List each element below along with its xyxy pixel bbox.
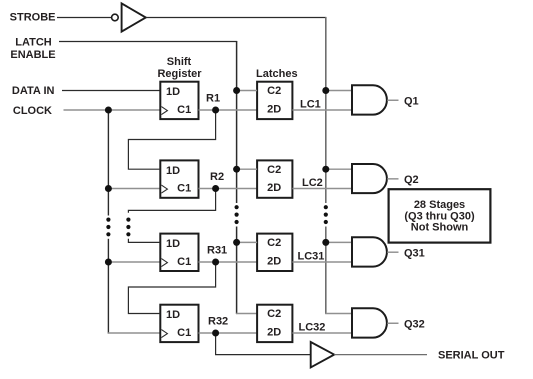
and-gate G3 (352, 237, 387, 266)
svg-text:Not Shown: Not Shown (411, 222, 469, 234)
junction strobe row 1 (322, 87, 329, 94)
wire latch-enable stub to C2 L3 (237, 241, 258, 243)
wire LC32 latch output to gate (292, 332, 352, 334)
svg-text:(Q3 thru Q30): (Q3 thru Q30) (404, 210, 475, 222)
wire strobe stub to gate G3 (326, 241, 352, 243)
svg-text:LC31: LC31 (298, 250, 325, 262)
svg-text:C2: C2 (267, 85, 281, 97)
latch L3 box (257, 234, 292, 271)
svg-text:C2: C2 (267, 237, 281, 249)
clock wedge FF4 (161, 330, 167, 338)
svg-text:1D: 1D (166, 238, 180, 250)
buffer U2 serial out (311, 342, 335, 367)
svg-text:2D: 2D (267, 326, 281, 338)
svg-text:LC1: LC1 (300, 98, 321, 110)
svg-text:C1: C1 (177, 104, 191, 116)
ellipsis strobe bus (324, 205, 328, 209)
wire CLOCK input (64, 109, 161, 111)
wire latch-enable stub to C2 L1 (237, 90, 258, 92)
ellipsis latch-enable bus (235, 205, 239, 209)
svg-text:STROBE: STROBE (10, 11, 56, 23)
svg-text:LATCH: LATCH (15, 37, 52, 49)
ellipsis clock bus (106, 218, 110, 222)
svg-text:C1: C1 (177, 327, 191, 339)
svg-text:SERIAL OUT: SERIAL OUT (438, 350, 505, 362)
wire strobe vertical bus lower segment (325, 227, 327, 315)
wire STROBE input (57, 17, 111, 19)
shift register flip-flop FF2 box (160, 160, 198, 197)
shift register flip-flop FF3 box (160, 234, 198, 271)
wire serial path R31 to FF32 1D (128, 262, 215, 314)
wire clock vertical upper segment (107, 110, 109, 216)
junction strobe row 2 (322, 166, 329, 173)
svg-text:R32: R32 (208, 315, 228, 327)
wire gate G4 output (387, 322, 398, 324)
junction latch-enable row 2 (233, 166, 240, 173)
svg-text:1D: 1D (166, 309, 180, 321)
clock wedge FF3 (161, 259, 167, 267)
wire latch-enable stub to C2 L2 (237, 168, 258, 170)
svg-text:1D: 1D (166, 165, 180, 177)
wire serial path R2 down (128, 189, 215, 213)
svg-text:DATA IN: DATA IN (12, 85, 55, 97)
wire strobe stub to gate G2 (326, 168, 352, 170)
wire gate G3 output (387, 251, 398, 253)
and-gate G4 (352, 308, 387, 337)
svg-text:LC32: LC32 (299, 321, 326, 333)
wire clock stub to C1 row31 (108, 261, 160, 263)
junction clock row2 (105, 185, 112, 192)
note box 28 stages (389, 189, 491, 242)
svg-text:Q2: Q2 (404, 174, 419, 186)
shift register flip-flop FF4 box (160, 305, 198, 342)
svg-text:28 Stages: 28 Stages (414, 199, 465, 211)
svg-text:2D: 2D (267, 255, 281, 267)
svg-text:R2: R2 (210, 171, 224, 183)
wire LC2 latch output to gate (292, 188, 352, 190)
wire LATCH ENABLE input (59, 41, 237, 43)
svg-text:C2: C2 (267, 308, 281, 320)
wire R32 shift output to latch 2D (199, 332, 258, 334)
wire gate G1 output (387, 99, 398, 101)
wire serial out from R32 (216, 333, 311, 355)
ellipsis serial path (126, 218, 130, 222)
junction R31 (212, 259, 219, 266)
wire buffer output (334, 354, 427, 356)
junction clock row1 (105, 107, 112, 114)
inverter U1 on STROBE line (112, 3, 146, 31)
latch L1 box (257, 82, 292, 119)
svg-text:Q32: Q32 (404, 318, 425, 330)
wire R31 shift output to latch 2D (199, 261, 258, 263)
wire gate G2 output (387, 178, 398, 180)
and-gate G1 (352, 85, 387, 114)
junction strobe row 3 (322, 239, 329, 246)
wire DATA IN to 1D (62, 90, 160, 92)
svg-text:LC2: LC2 (302, 177, 323, 189)
wire LC31 latch output to gate (292, 261, 352, 263)
svg-text:2D: 2D (267, 103, 281, 115)
svg-text:C1: C1 (177, 256, 191, 268)
svg-text:C2: C2 (267, 164, 281, 176)
junction R32 (212, 330, 219, 337)
svg-text:ENABLE: ENABLE (10, 49, 55, 61)
svg-text:1D: 1D (166, 86, 180, 98)
wire latch-enable stub to latch L32 (236, 313, 257, 315)
wire strobe stub to gate G1 (326, 90, 352, 92)
junction clock row31 (105, 259, 112, 266)
svg-text:Q1: Q1 (404, 95, 419, 107)
wire R1 shift output to latch 2D (199, 109, 258, 111)
junction latch-enable row 1 (233, 87, 240, 94)
svg-text:Shift: Shift (167, 56, 192, 68)
wire R2 shift output to latch 2D (199, 188, 258, 190)
clock wedge FF2 (161, 185, 167, 193)
junction latch-enable row 3 (233, 239, 240, 246)
clock wedge FF1 (161, 107, 167, 115)
svg-text:Q31: Q31 (404, 247, 425, 259)
junction R1 (212, 107, 219, 114)
wire serial path R1 to FF2 1D (128, 110, 215, 169)
wire strobe stub to gate G4 (325, 313, 352, 315)
wire LC1 latch output to gate (292, 109, 352, 111)
wire clock elbow to C1 row32 (108, 332, 160, 334)
svg-text:R1: R1 (206, 92, 220, 104)
wire strobe vertical bus upper segment (325, 17, 327, 203)
latch L2 box (257, 160, 292, 197)
wire latch-enable vertical upper segment (236, 41, 238, 203)
wire inverter output to strobe bus (146, 17, 327, 19)
latch L4 box (257, 305, 292, 342)
junction R2 (212, 185, 219, 192)
svg-text:R31: R31 (207, 244, 227, 256)
shift register flip-flop FF1 box (160, 82, 198, 119)
svg-text:CLOCK: CLOCK (13, 105, 52, 117)
svg-text:Latches: Latches (256, 68, 298, 80)
wire clock vertical lower segment (107, 239, 109, 334)
wire serial path resume to FF31 1D (128, 239, 160, 243)
svg-text:C1: C1 (177, 183, 191, 195)
svg-text:2D: 2D (267, 182, 281, 194)
svg-text:Register: Register (157, 68, 202, 80)
and-gate G2 (352, 164, 387, 193)
wire latch-enable vertical lower segment (236, 227, 238, 315)
wire clock stub to C1 row2 (108, 188, 160, 190)
